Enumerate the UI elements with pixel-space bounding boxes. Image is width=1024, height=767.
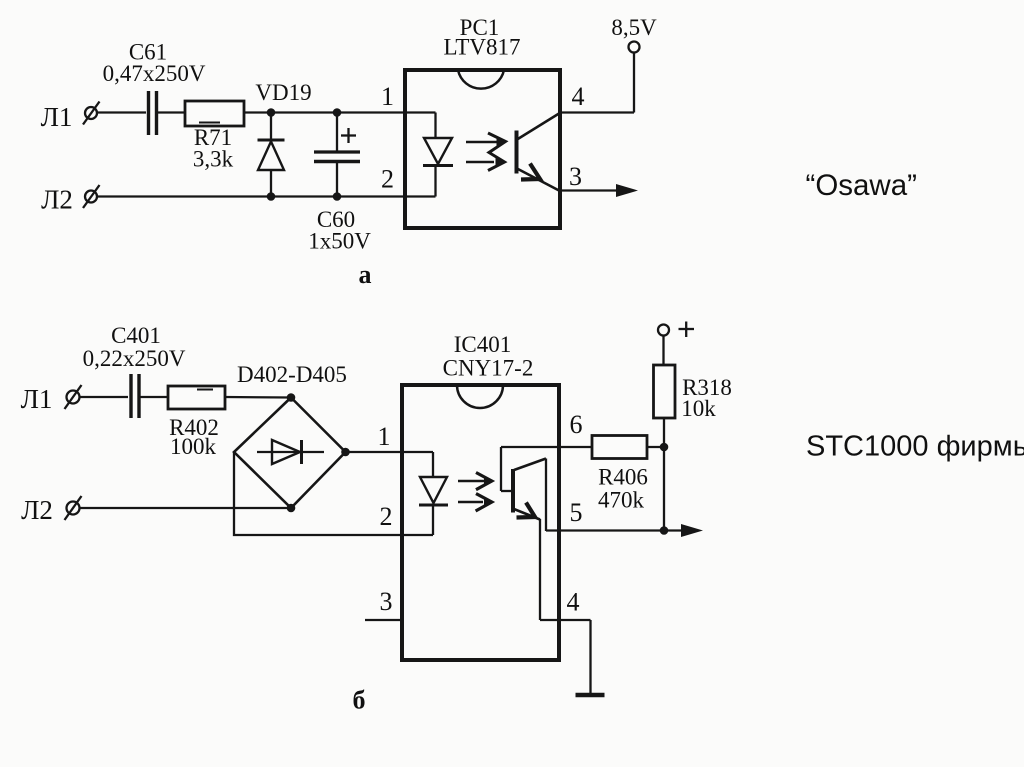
svg-text:0,22x250V: 0,22x250V	[83, 346, 186, 371]
svg-text:б: б	[353, 686, 366, 715]
svg-text:4: 4	[567, 588, 580, 617]
svg-text:3,3k: 3,3k	[193, 147, 234, 172]
svg-text:a: a	[359, 260, 372, 289]
svg-text:D402-D405: D402-D405	[237, 362, 347, 387]
svg-text:STC1000 фирмы: STC1000 фирмы	[806, 431, 1024, 463]
svg-text:4: 4	[572, 82, 585, 111]
svg-text:Л2: Л2	[21, 495, 53, 525]
svg-text:470k: 470k	[598, 488, 645, 513]
svg-text:Л1: Л1	[21, 384, 53, 414]
svg-text:2: 2	[381, 165, 394, 194]
svg-text:100k: 100k	[170, 434, 217, 459]
svg-text:8,5V: 8,5V	[611, 15, 657, 40]
svg-text:LTV817: LTV817	[443, 35, 520, 60]
svg-text:5: 5	[570, 498, 583, 527]
svg-text:CNY17-2: CNY17-2	[443, 356, 534, 381]
svg-text:1x50V: 1x50V	[308, 229, 371, 254]
svg-text:0,47x250V: 0,47x250V	[103, 61, 206, 86]
svg-text:6: 6	[570, 410, 583, 439]
svg-text:VD19: VD19	[255, 80, 311, 105]
svg-text:R406: R406	[598, 465, 648, 490]
svg-text:Л2: Л2	[41, 185, 73, 215]
svg-text:Л1: Л1	[41, 102, 73, 132]
svg-text:IC401: IC401	[454, 332, 512, 357]
svg-text:C401: C401	[111, 323, 161, 348]
svg-text:1: 1	[381, 82, 394, 111]
svg-text:3: 3	[380, 587, 393, 616]
svg-text:“Osawa”: “Osawa”	[806, 169, 917, 202]
svg-text:1: 1	[378, 422, 391, 451]
svg-text:2: 2	[380, 502, 393, 531]
svg-text:10k: 10k	[681, 396, 716, 421]
svg-text:3: 3	[569, 162, 582, 191]
